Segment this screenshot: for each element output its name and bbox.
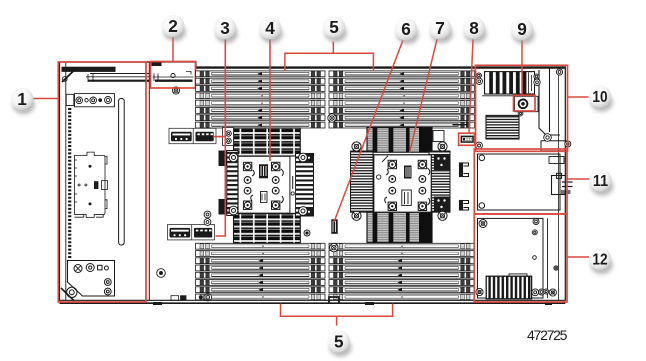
CPU 1 center connector xyxy=(259,164,268,202)
callout ball 8 at (474,28) xyxy=(463,17,487,43)
svg-text:3: 3 xyxy=(220,18,230,38)
drive backplane PCB xyxy=(74,152,107,217)
item 12 connector xyxy=(486,274,531,299)
svg-text:2: 2 xyxy=(168,16,178,36)
CPU 2 heatsink bottom fins xyxy=(367,212,432,242)
DIMM bank top-left xyxy=(196,71,326,128)
small hole item 12 xyxy=(533,256,537,260)
callout ball 9 at (522,29) xyxy=(511,18,535,44)
callout ball 3 at (225,28) xyxy=(214,17,238,43)
callout ball 12 at (600,259) xyxy=(589,248,613,275)
CPU 1 left choke column xyxy=(227,151,238,216)
callout ball 5 at (338.8,341.5) xyxy=(328,330,352,356)
leader line 11 xyxy=(567,178,590,180)
leader line 8 xyxy=(469,39,473,133)
svg-text:12: 12 xyxy=(592,252,607,269)
leader line 4 xyxy=(269,39,271,161)
callout ball 6 at (406,29) xyxy=(395,18,419,44)
cage divider bar xyxy=(119,98,125,245)
dual screws below-left of CPU1 xyxy=(204,211,211,225)
mezzanine bay (item 11) xyxy=(478,154,565,210)
server blade chassis outline xyxy=(60,62,566,303)
CPU 1 retention clips xyxy=(243,162,280,209)
CPU 1 corner standoffs xyxy=(229,153,238,162)
bracket above item 8 xyxy=(453,121,468,128)
mezzanine area details (item 10) xyxy=(482,68,567,151)
front panel plate with LEDs xyxy=(66,94,114,107)
CPU 1 clip arrows xyxy=(251,169,284,203)
svg-text:472725: 472725 xyxy=(527,327,568,343)
CPU 1 side chokes xyxy=(219,151,227,215)
CPU 2 clip arrows xyxy=(385,168,430,205)
callout ball 10 at (600,96.5) xyxy=(589,85,613,112)
standoff left of bottom DIMMs xyxy=(157,269,166,278)
leader line 6 xyxy=(334,41,403,223)
leader line 1 xyxy=(33,98,58,100)
CPU 2 left fin column xyxy=(351,151,374,212)
board mount between bottom DIMM banks xyxy=(329,297,339,303)
EMI gasket strip xyxy=(68,108,71,258)
CPU 2 heatsink top fins xyxy=(367,128,432,153)
CPU 1 VR choke bank bottom xyxy=(234,214,301,244)
red callout box 2 (latch) xyxy=(151,62,196,89)
leader line 3 xyxy=(214,39,225,236)
blade release latch xyxy=(152,63,194,82)
battery connector (item 8) xyxy=(461,136,473,142)
drive cage top rail xyxy=(62,67,149,82)
callout ball 5 at (334,27) xyxy=(323,16,347,42)
CPU 2 right fin column xyxy=(429,151,450,212)
callout ball 7 at (440,28) xyxy=(429,17,453,43)
standoff screw between top DIMM banks xyxy=(328,114,336,122)
callout ball 4 at (270,28) xyxy=(259,17,283,43)
red callout box 10 xyxy=(476,65,568,151)
TPM connector (item 6) xyxy=(331,219,337,234)
DIMM bank top-right xyxy=(329,71,475,128)
svg-text:5: 5 xyxy=(334,332,344,352)
svg-text:9: 9 xyxy=(517,19,527,39)
leader bracket 5 top xyxy=(285,42,374,72)
red callout box 12 xyxy=(474,214,567,302)
callout ball 11 at (600.5,180.5) xyxy=(589,169,613,196)
leader line 9 xyxy=(521,40,523,95)
mezzanine bay (item 12) xyxy=(478,218,548,298)
CPU 1 right choke column xyxy=(296,154,314,217)
svg-text:1: 1 xyxy=(17,89,27,109)
leader bracket 5 bottom xyxy=(281,304,393,326)
TPM module (item 11 component) xyxy=(552,173,573,194)
callout ball 1 at (22,99) xyxy=(11,88,35,115)
svg-text:10: 10 xyxy=(592,89,607,106)
svg-text:11: 11 xyxy=(593,173,608,190)
svg-text:7: 7 xyxy=(435,18,445,38)
small parts bottom-left of board xyxy=(171,293,212,301)
CPU 1 VR choke bank top xyxy=(234,128,301,156)
item 10 screws xyxy=(476,73,481,78)
CPU 2 corner standoffs xyxy=(352,142,361,151)
red callout box 8 xyxy=(459,133,475,145)
small standoff below CPU1 xyxy=(304,230,310,236)
CPU 2 right column caps xyxy=(434,154,450,212)
battery holder outline xyxy=(515,96,539,111)
SATA connector pair upper-left xyxy=(169,128,216,143)
CPU 1 socket plate xyxy=(238,156,290,213)
DIMM bank bottom-right xyxy=(329,243,475,300)
dual screws left of CPU 1 choke bank xyxy=(223,128,234,146)
edge screw between items 10 and 11 xyxy=(565,141,571,147)
SATA connector pair lower-left xyxy=(168,225,215,240)
red callout box 1 (drive cage) xyxy=(58,62,146,302)
leader line 2 xyxy=(172,37,174,61)
battery (item 9) xyxy=(519,99,528,108)
cage bottom bracket with screws xyxy=(61,261,115,301)
CPU 1 right column caps xyxy=(300,154,314,217)
latch screw xyxy=(172,87,179,94)
svg-text:8: 8 xyxy=(469,18,479,38)
svg-text:4: 4 xyxy=(265,18,275,38)
red callout box 11 xyxy=(474,149,567,214)
leader line 12 xyxy=(567,256,589,258)
chassis mounting tabs xyxy=(153,301,552,305)
CPU 2 socket marker xyxy=(377,175,381,179)
leader line 10 xyxy=(568,96,589,98)
svg-text:5: 5 xyxy=(329,17,339,37)
callout ball 2 at (173,26) xyxy=(162,15,186,41)
svg-text:6: 6 xyxy=(401,19,411,39)
CPU 2 center connector xyxy=(402,166,412,206)
bracket clips right of CPU2 xyxy=(460,163,469,210)
DIMM bank bottom-left xyxy=(196,243,326,300)
standoff screw between bottom DIMM banks xyxy=(330,243,338,251)
CPU 2 socket plate xyxy=(374,155,432,212)
red callout box 9 xyxy=(514,95,536,111)
small white box above CPU2 left xyxy=(433,131,444,142)
CPU 2 retention clips xyxy=(388,160,427,210)
item 12 screws xyxy=(479,220,487,228)
leader line 7 xyxy=(410,39,438,152)
